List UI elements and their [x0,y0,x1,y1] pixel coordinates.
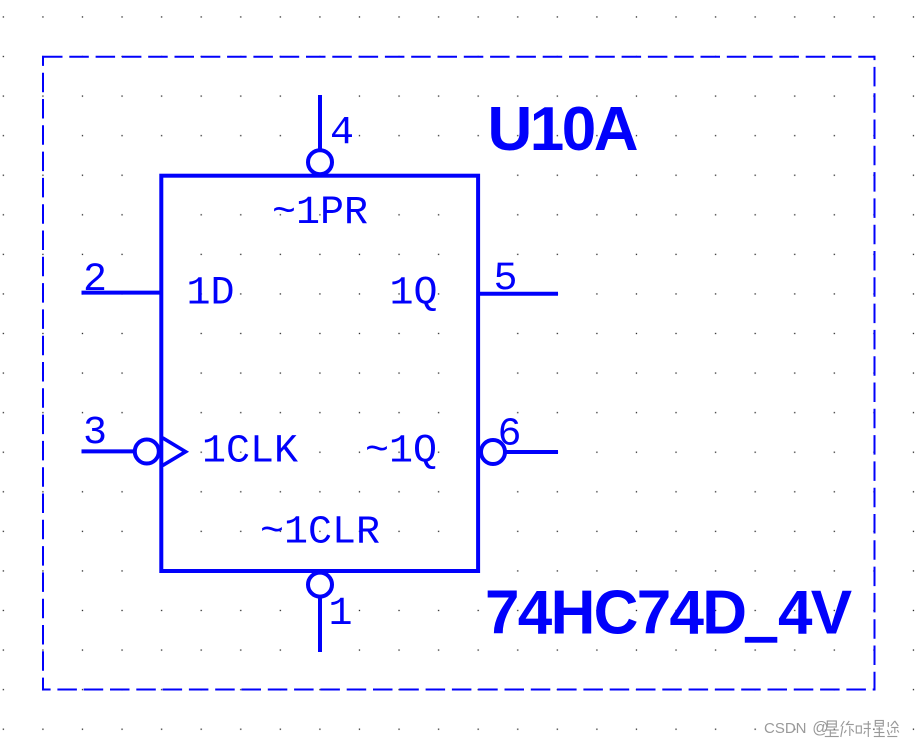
svg-text:3: 3 [83,411,107,456]
svg-text:1: 1 [329,592,353,637]
pin 3 inversion bubble [135,440,159,464]
pin 6 inversion bubble [481,440,505,464]
clock edge wedge [163,438,186,466]
pin 3 wire (1CLK) [82,449,134,453]
pin 1 wire (~1CLR) [318,598,322,652]
svg-text:1Q: 1Q [390,272,438,317]
pin 2 wire (1D) [82,291,162,295]
svg-text:U10A: U10A [488,95,638,164]
pin 6 wire (~1Q) [506,450,558,454]
dashed selection frame [43,57,875,690]
svg-text:4V: 4V [778,579,852,648]
svg-text:4: 4 [330,111,354,156]
svg-text:@: @ [812,719,828,737]
pin 5 wire (1Q) [479,292,558,296]
flip-flop U10A body [161,176,478,571]
途 [887,722,889,727]
pin 4 inversion bubble [308,150,332,174]
svg-text:~1PR: ~1PR [272,191,368,236]
watermark hanzi 是你呀星途 (drawn) [825,721,899,738]
pin 1 inversion bubble [308,573,332,597]
呀 [856,726,861,733]
是 [827,721,836,727]
svg-text:6: 6 [498,413,522,458]
svg-text:~1Q: ~1Q [365,430,437,475]
pin 4 wire (~1PR) [318,95,322,149]
svg-text:~1CLR: ~1CLR [260,510,380,555]
svg-text:2: 2 [83,258,107,303]
svg-text:CSDN: CSDN [764,720,807,737]
你 [841,726,843,737]
星 [875,721,883,727]
svg-text:5: 5 [494,257,518,302]
svg-text:1CLK: 1CLK [202,430,298,475]
svg-text:1D: 1D [187,272,235,317]
svg-text:74HC74D: 74HC74D [485,579,745,648]
